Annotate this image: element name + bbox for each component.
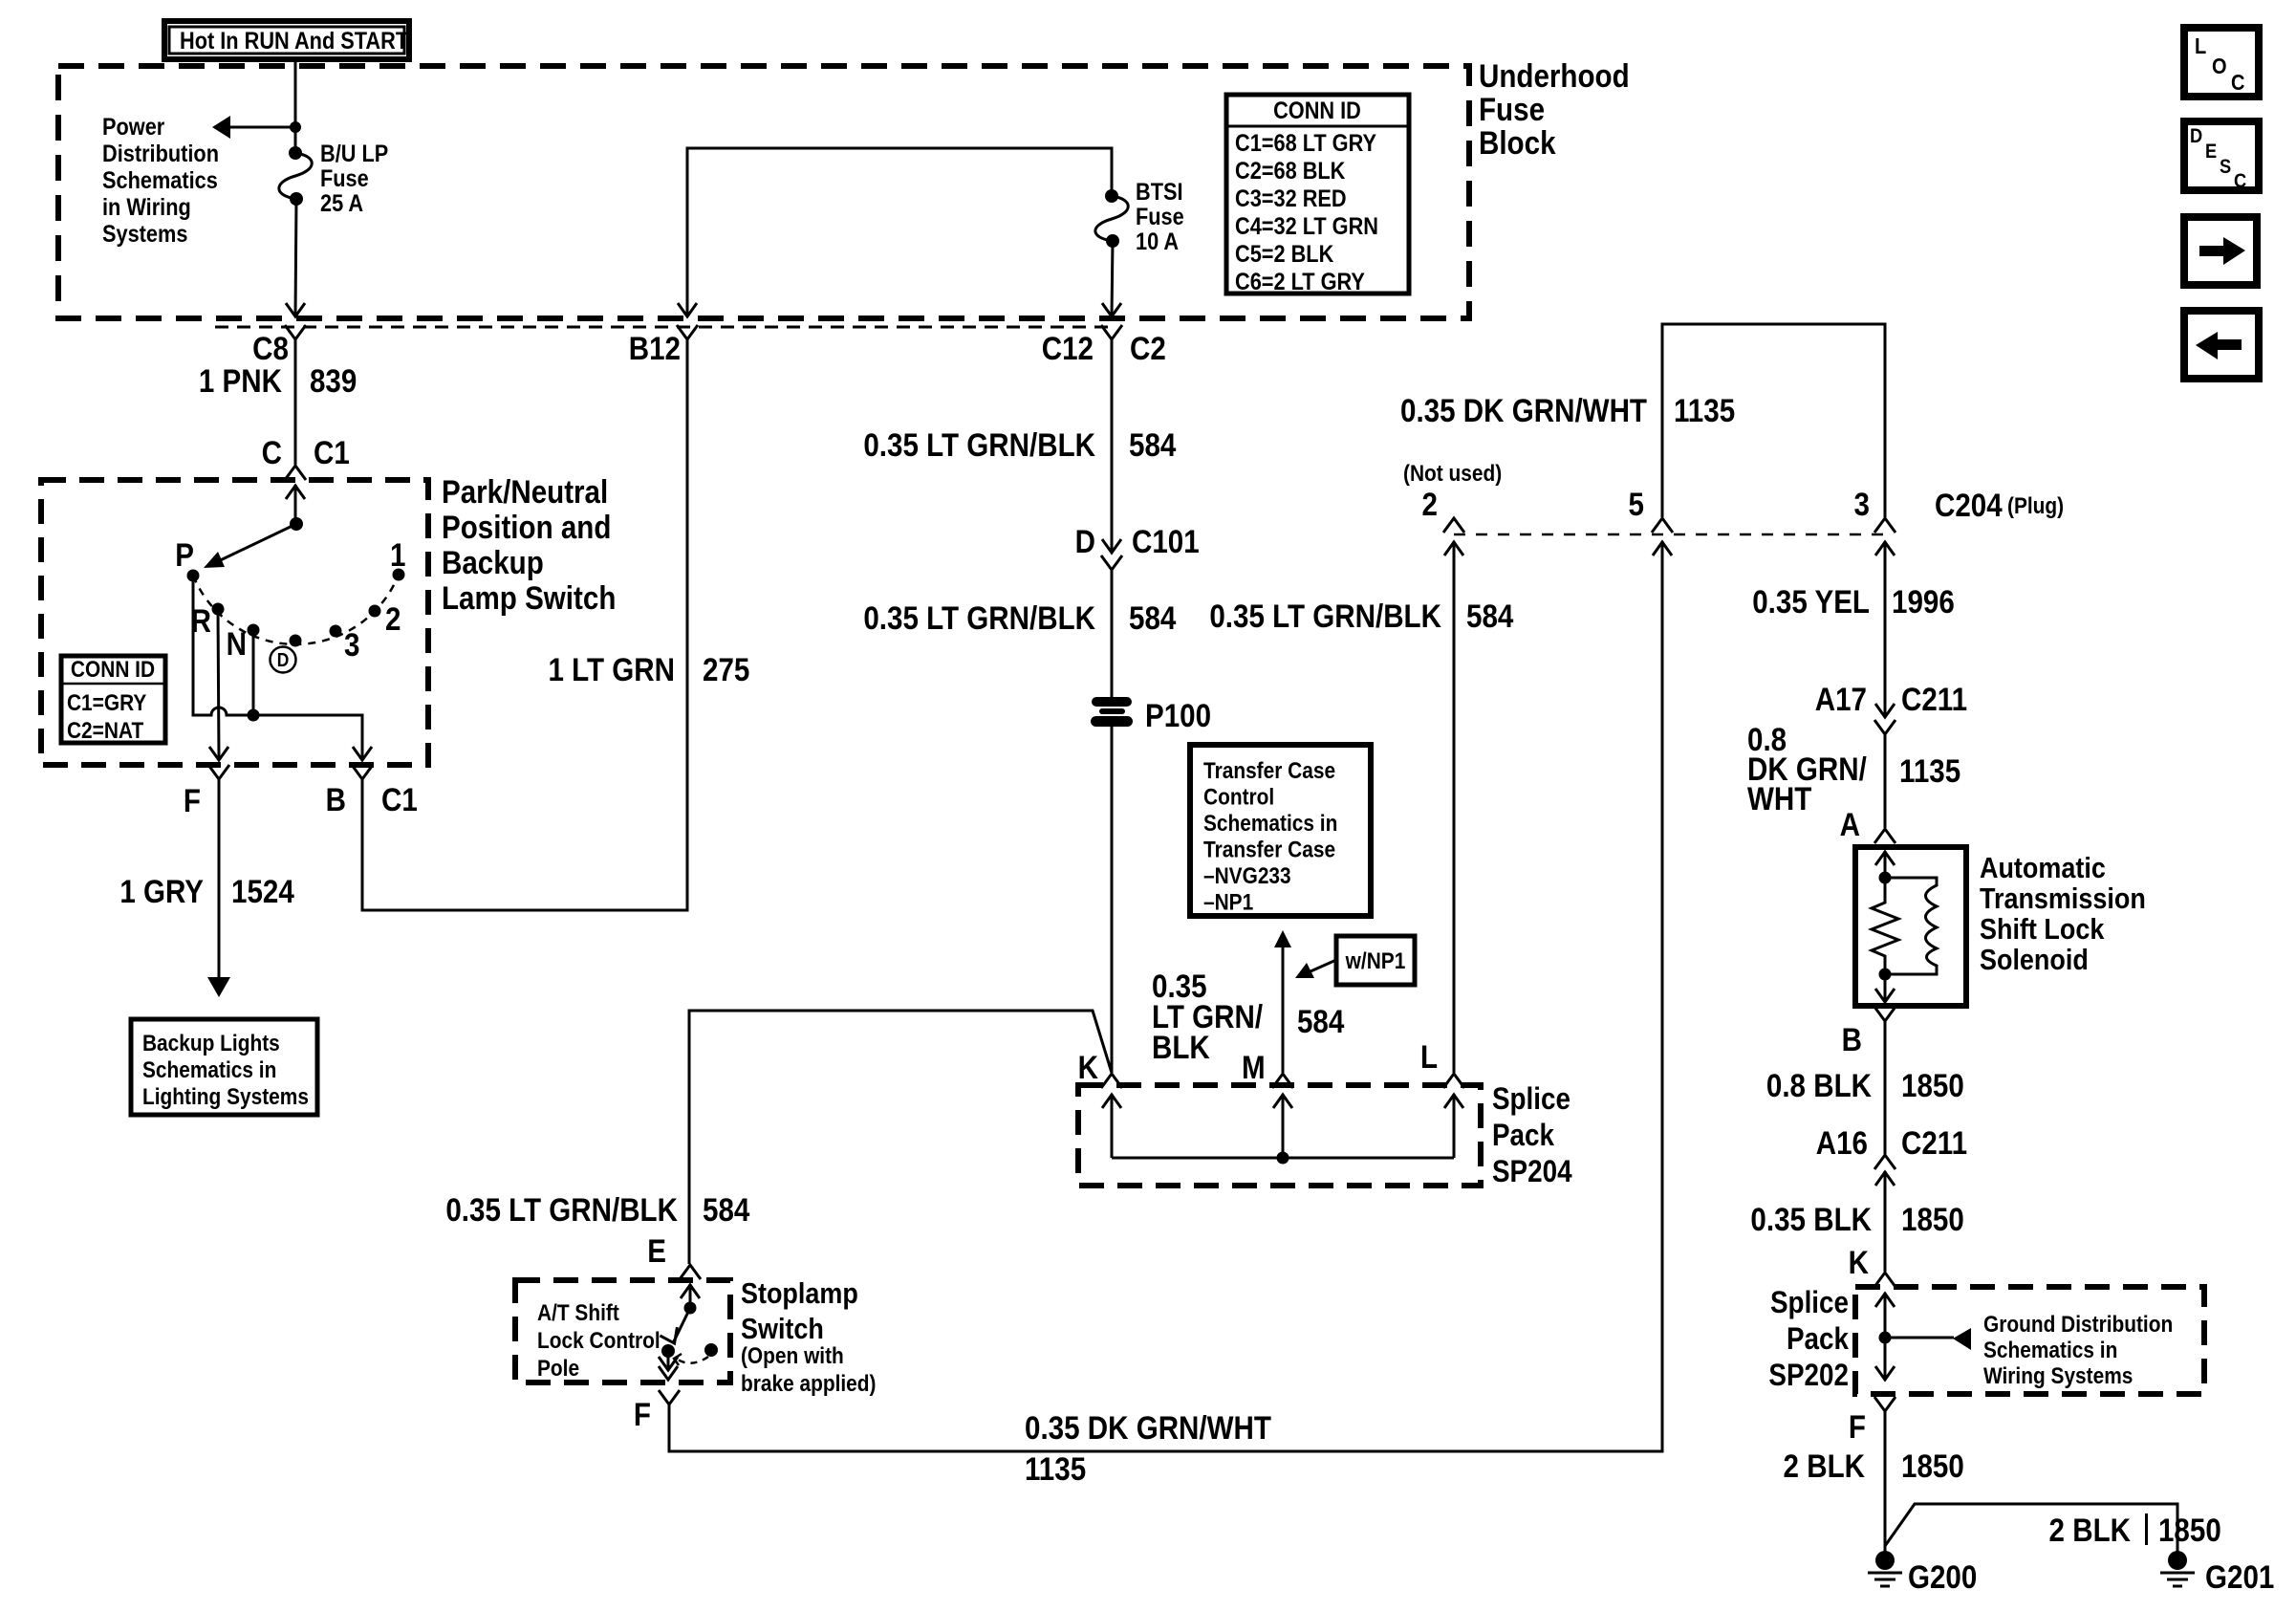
connector A16 / C211: [1816, 1124, 1967, 1186]
svg-text:2 BLK: 2 BLK: [2049, 1512, 2131, 1548]
svg-text:1135: 1135: [1025, 1450, 1086, 1487]
svg-text:E: E: [2205, 141, 2217, 163]
label: 0.35 YEL 1996: [1752, 583, 1955, 620]
svg-text:C101: C101: [1132, 523, 1200, 559]
svg-text:C: C: [262, 434, 282, 470]
svg-text:A: A: [1840, 806, 1860, 842]
svg-text:584: 584: [703, 1191, 750, 1228]
svg-text:1524: 1524: [231, 873, 294, 909]
CONN ID table of underhood fuse block: [1226, 95, 1409, 294]
wire: P100 down to splice K: [1111, 727, 1114, 1073]
stoplamp contact left: [661, 1344, 675, 1358]
ground G201: [2160, 1551, 2274, 1595]
svg-text:CONN ID: CONN ID: [1273, 98, 1361, 124]
stoplamp contact right: [704, 1343, 718, 1357]
connector F below switch: [184, 765, 229, 818]
wire: E branch from splice K up and left to stoplamp E: [689, 1011, 1112, 1264]
svg-text:1996: 1996: [1892, 583, 1955, 620]
svg-text:1 PNK: 1 PNK: [199, 362, 282, 399]
connector interface dashed line below fuse block: [215, 326, 1111, 329]
svg-text:S: S: [2220, 156, 2231, 178]
stoplamp switch dashed box: [515, 1280, 730, 1382]
grommet P100: [1091, 697, 1211, 733]
svg-text:1850: 1850: [1901, 1201, 1964, 1237]
contact N: [227, 624, 260, 663]
node: power distribution tap: [290, 121, 301, 133]
svg-text:CONN ID: CONN ID: [71, 657, 155, 683]
svg-text:C211: C211: [1901, 681, 1967, 717]
connector D / C101: [1075, 523, 1200, 570]
svg-text:1135: 1135: [1674, 392, 1735, 428]
svg-text:C8: C8: [252, 330, 289, 366]
connector F of stoplamp: [634, 1390, 680, 1432]
node: switch common pivot: [290, 517, 303, 531]
label: 1 PNK 839: [199, 362, 357, 399]
svg-text:1850: 1850: [1901, 1067, 1964, 1103]
C204 pin 3: [1854, 486, 1895, 555]
svg-text:0.35 LT GRN/BLK: 0.35 LT GRN/BLK: [863, 426, 1095, 463]
SP202 entry arrow up: [1875, 1293, 1895, 1338]
contact 2: [369, 600, 401, 637]
svg-text:2 BLK: 2 BLK: [1784, 1448, 1865, 1484]
wire: branch to ground G201: [1885, 1504, 2177, 1552]
wire: P contact down with hop over R line then to B: [193, 576, 362, 758]
splice L leg with up arrow: [1444, 1094, 1463, 1158]
svg-text:K: K: [1078, 1049, 1098, 1085]
svg-text:0.35 DK GRN/WHT: 0.35 DK GRN/WHT: [1025, 1409, 1271, 1446]
svg-text:G200: G200: [1908, 1558, 1977, 1595]
svg-text:584: 584: [1129, 426, 1177, 463]
fuse B/U LP 25 A: [279, 146, 312, 206]
svg-text:F: F: [184, 782, 201, 818]
svg-text:2: 2: [385, 600, 401, 637]
svg-text:C204: C204: [1935, 487, 2003, 523]
connector B of solenoid: [1842, 1007, 1895, 1057]
splice pack SP204 dashed box: [1078, 1085, 1481, 1186]
stoplamp switch: entry arrow up: [681, 1284, 700, 1308]
splice bus SP204: [1112, 1157, 1454, 1160]
svg-text:0.35 YEL: 0.35 YEL: [1752, 583, 1870, 620]
stoplamp swing arc dashed with arrowhead: [674, 1354, 708, 1365]
svg-text:BTSIFuse10 A: BTSIFuse10 A: [1136, 179, 1184, 255]
svg-text:0.35 LT GRN/BLK: 0.35 LT GRN/BLK: [1209, 598, 1441, 634]
svg-text:G201: G201: [2205, 1558, 2274, 1595]
contact D circled: [271, 635, 302, 673]
CONN ID table of switch: [61, 656, 165, 743]
connector C / C1 into switch: [262, 434, 350, 480]
label: 0.35 DK GRN/WHT 1135 on jumper: [1400, 392, 1735, 428]
label: 0.8 DK GRN/ WHT 1135: [1747, 721, 1960, 816]
nav box DESC: [2184, 121, 2259, 192]
wire: stoplamp exit with double arrow: [659, 1351, 678, 1380]
svg-text:839: 839: [310, 362, 357, 399]
wire: C204 pin 5 down to stoplamp F (0.35 DK GRN/WHT 1135): [669, 541, 1662, 1451]
connector A17 / C211: [1815, 681, 1967, 734]
label: 0.35 LT GRN/BLK 584 on E branch: [445, 1191, 749, 1228]
ground G200: [1868, 1551, 1977, 1595]
switch blade arm to P with arrowhead: [204, 524, 296, 568]
label: 0.35 BLK 1850: [1750, 1201, 1963, 1237]
label: 2 BLK 1850 right with divider: [2049, 1512, 2221, 1548]
connector F of SP202: [1849, 1397, 1895, 1445]
label: 2 BLK 1850 left: [1784, 1448, 1964, 1484]
svg-text:Hot In RUN And START: Hot In RUN And START: [180, 28, 409, 54]
wire: L up to C204 pin 2: [1453, 541, 1456, 1073]
svg-text:E: E: [647, 1232, 666, 1269]
wire: C2 down to C101 with arrow (0.35 LT GRN/BLK 584): [1102, 339, 1121, 553]
svg-text:L: L: [2195, 33, 2206, 59]
nav box arrow right: [2184, 217, 2257, 285]
underhood fuse block dashed box: [58, 66, 1469, 318]
label: 0.35 DK GRN/WHT 1135 bottom run: [1025, 1409, 1271, 1487]
svg-text:0.35 LT GRN/BLK: 0.35 LT GRN/BLK: [445, 1191, 678, 1228]
switch contact arc dashed: [193, 575, 399, 644]
arrow into B inside switch: [353, 747, 372, 760]
svg-text:584: 584: [1297, 1003, 1345, 1039]
reference box: Transfer Case Control Schematics: [1190, 745, 1371, 916]
connector M of SP204: [1242, 1049, 1293, 1088]
svg-text:275: 275: [703, 651, 749, 687]
node: SP202 junction: [1879, 1332, 1892, 1344]
connector B12: [629, 325, 698, 366]
power label box: Hot In RUN And START: [164, 21, 409, 59]
svg-text:P: P: [175, 536, 194, 573]
solenoid coil: [1885, 878, 1937, 974]
label: 0.8 BLK 1850: [1766, 1067, 1964, 1103]
connector C12 / C2: [1042, 325, 1166, 366]
wire: jumper C204 pin 5 to pin 3: [1662, 324, 1885, 517]
wire: C101 to P100: [1111, 570, 1114, 699]
SP202 exit arrow down: [1875, 1338, 1895, 1380]
wire: A16 to SP202 K (0.35 BLK 1850): [1884, 1171, 1887, 1272]
w/NP1 tag with pointer arrow: [1295, 936, 1415, 985]
svg-text:B: B: [326, 781, 346, 817]
solenoid exit arrow down: [1875, 974, 1895, 1002]
wire: N contact down to bus: [252, 630, 255, 715]
svg-text:Park/NeutralPosition andBackup: Park/NeutralPosition andBackupLamp Switc…: [442, 473, 616, 616]
svg-text:F: F: [1849, 1408, 1866, 1445]
label: 0.35 LT GRN/ BLK 584 on M branch: [1152, 968, 1345, 1065]
svg-text:O: O: [2212, 54, 2227, 79]
svg-text:C: C: [2234, 170, 2246, 192]
nav box arrow left: [2184, 311, 2259, 379]
connector B / C1 below switch: [326, 765, 418, 817]
svg-text:D: D: [1075, 523, 1095, 559]
C204 pin 2: [1422, 486, 1464, 555]
svg-text:A16: A16: [1816, 1124, 1868, 1161]
svg-text:0.35 BLK: 0.35 BLK: [1750, 1201, 1872, 1237]
svg-text:C211: C211: [1901, 1124, 1967, 1161]
node: stoplamp pivot: [684, 1302, 697, 1315]
svg-text:1 LT GRN: 1 LT GRN: [548, 651, 675, 687]
C204 pin 5: [1629, 486, 1673, 555]
connector C204 dashed interface line: [1454, 533, 1885, 536]
svg-text:D: D: [2190, 125, 2202, 147]
wire: hot feed from Hot In RUN And START down: [294, 59, 297, 153]
svg-text:C1=68 LT GRYC2=68 BLKC3=32 RED: C1=68 LT GRYC2=68 BLKC3=32 REDC4=32 LT G…: [1235, 130, 1378, 295]
connector K of SP204: [1078, 1049, 1122, 1088]
svg-text:1 GRY: 1 GRY: [119, 873, 204, 909]
svg-text:584: 584: [1129, 599, 1177, 636]
svg-text:0.35 DK GRN/WHT: 0.35 DK GRN/WHT: [1400, 392, 1647, 428]
connector L of SP204: [1420, 1038, 1464, 1088]
reference box: Backup Lights Schematics in Lighting Systems: [131, 1019, 317, 1115]
svg-text:1: 1: [390, 536, 405, 573]
arrow into B12: [678, 303, 697, 316]
svg-text:C1: C1: [381, 781, 418, 817]
contact 3: [330, 625, 360, 664]
svg-text:N: N: [227, 625, 247, 662]
splice K leg with up arrow: [1102, 1094, 1121, 1158]
label: C204 (Plug): [1935, 487, 2064, 523]
wire: B12 feed down and left up into switch B (1 LT GRN 275): [362, 339, 687, 910]
wire: fuse block internal bus: [687, 148, 1112, 316]
contact P: [175, 536, 199, 581]
label: 0.35 LT GRN/BLK 584 lower: [863, 599, 1176, 636]
label: 1 GRY 1524: [119, 873, 294, 909]
wire: BTSI fuse to C12 with arrow: [1102, 241, 1121, 316]
nav box LOC: [2184, 28, 2259, 97]
node: solenoid bottom junction: [1879, 969, 1892, 981]
wire: fuse to C8 with arrow: [286, 199, 305, 316]
svg-text:M: M: [1242, 1049, 1266, 1085]
svg-text:3: 3: [344, 626, 359, 663]
connector C8: [252, 325, 306, 366]
contact 1: [390, 536, 405, 580]
svg-text:(Not used): (Not used): [1403, 461, 1502, 487]
fuse BTSI 10 A: [1095, 189, 1128, 248]
wire: M branch up to transfer case with solid arrow: [1274, 930, 1291, 1073]
wire: R contact down to F with arrow: [209, 609, 228, 760]
svg-text:0.35 LT GRN/BLK: 0.35 LT GRN/BLK: [863, 599, 1095, 636]
solenoid entry arrow up: [1875, 851, 1895, 878]
svg-text:D: D: [277, 649, 290, 670]
label: 0.35 LT GRN/BLK 584 upper: [863, 426, 1176, 463]
stoplamp blade with open arrowhead: [660, 1308, 690, 1347]
park/neutral position and backup lamp switch dashed box: [41, 480, 428, 765]
svg-text:3: 3: [1854, 486, 1870, 522]
node: N line junction: [248, 709, 260, 722]
wire: B to A16 (0.8 BLK 1850): [1884, 1021, 1887, 1154]
node: solenoid top junction: [1879, 872, 1892, 884]
svg-text:w/NP1: w/NP1: [1345, 948, 1406, 974]
svg-text:L: L: [1420, 1038, 1438, 1075]
svg-text:1850: 1850: [1901, 1448, 1964, 1484]
svg-text:C2: C2: [1130, 330, 1166, 366]
wire: C1 into switch with up arrow: [286, 485, 305, 524]
svg-text:2: 2: [1422, 486, 1438, 522]
wire: C8 to C1: [294, 339, 297, 465]
svg-text:1135: 1135: [1899, 752, 1960, 789]
wire: C204 pin 3 down to A17 with arrow (0.35 YEL 1996): [1875, 541, 1895, 717]
label: 1 LT GRN 275: [548, 651, 749, 687]
svg-text:1850: 1850: [2158, 1512, 2221, 1548]
svg-text:C12: C12: [1042, 330, 1094, 366]
svg-text:F: F: [634, 1396, 651, 1432]
SP202 stub to ground distribution arrow: [1885, 1328, 1971, 1350]
arrow to Power Distribution Schematics: [212, 116, 295, 139]
svg-text:B: B: [1842, 1021, 1862, 1057]
svg-text:A17: A17: [1815, 681, 1867, 717]
connector A of solenoid: [1840, 806, 1895, 843]
svg-text:K: K: [1849, 1244, 1869, 1280]
wire: C211 to solenoid pin A (0.8 DK GRN/WHT 1135): [1884, 734, 1887, 828]
connector K of SP202: [1849, 1244, 1895, 1287]
label: 0.35 LT GRN/BLK 584 on pin 2 wire: [1209, 598, 1513, 634]
connector E: [647, 1232, 701, 1279]
svg-text:584: 584: [1466, 598, 1514, 634]
splice pack SP202 dashed box: [1855, 1287, 2204, 1394]
node: splice junction: [1277, 1152, 1289, 1165]
svg-text:(Plug): (Plug): [2007, 493, 2064, 519]
svg-text:P100: P100: [1145, 697, 1211, 733]
splice M leg with up arrow: [1273, 1094, 1292, 1158]
svg-text:5: 5: [1629, 486, 1644, 522]
svg-text:B12: B12: [629, 330, 681, 366]
automatic transmission shift lock solenoid box: [1855, 847, 1966, 1006]
wire: F down to backup lights arrow: [207, 779, 230, 997]
wire: F to ground G200 (2 BLK 1850): [1884, 1411, 1887, 1552]
svg-text:C1: C1: [314, 434, 350, 470]
solenoid resistor: [1872, 878, 1898, 974]
svg-text:C: C: [2231, 70, 2244, 96]
svg-text:0.8 BLK: 0.8 BLK: [1766, 1067, 1872, 1103]
contact R: [191, 602, 225, 639]
